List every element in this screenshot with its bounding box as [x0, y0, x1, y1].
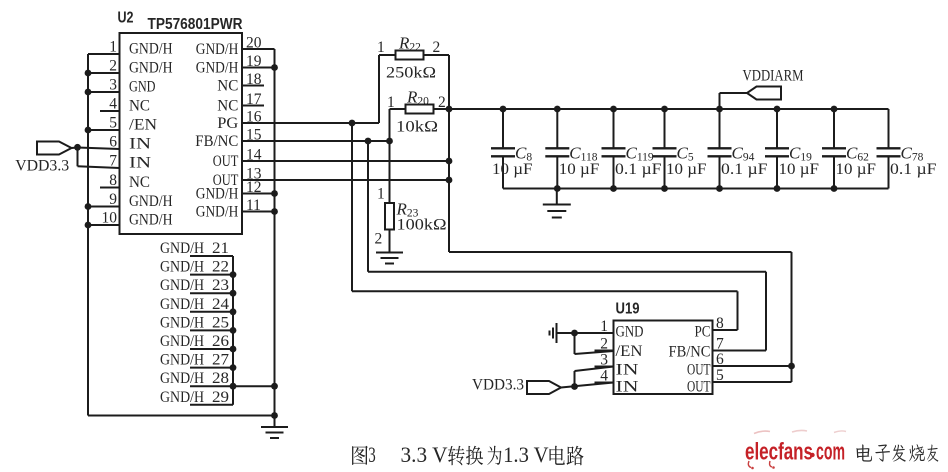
junction dot cap top rail: [500, 106, 507, 113]
svg-text:0.1 µF: 0.1 µF: [615, 161, 662, 178]
svg-text:OUT: OUT: [213, 153, 239, 170]
svg-text:10: 10: [102, 210, 118, 227]
wire FB/NC net (U2 pin15): [242, 140, 390, 142]
junction dot U2 pin9: [85, 203, 92, 210]
capacitor C118 (10 uF): [545, 109, 599, 189]
svg-text:IN: IN: [129, 155, 152, 172]
junction dot cap bottom rail: [610, 185, 617, 192]
U2 pin 1 (GND/H) stub and label: [88, 39, 173, 58]
svg-text:/EN: /EN: [129, 117, 157, 134]
junction dot right bus at GND/H 28: [271, 383, 278, 390]
wire VDDIARM to rail: [720, 93, 748, 109]
U2 part number TP576801PWR: [148, 16, 243, 33]
svg-text:21: 21: [212, 240, 229, 257]
svg-text:5: 5: [109, 115, 117, 132]
U2 reference designator: [118, 10, 134, 27]
U2 pin 8 (NC) stub and label: [100, 172, 150, 191]
R23 value 100kΩ: [397, 217, 447, 234]
svg-text:24: 24: [212, 296, 229, 313]
svg-text:U19: U19: [616, 301, 640, 318]
capacitor C62 (10 uF): [822, 109, 876, 189]
junction dot cap bottom rail: [554, 185, 561, 192]
wire R22 pin1 lead: [379, 55, 396, 123]
wire R23 pin1 lead: [389, 141, 391, 203]
R23 pin 1 number: [377, 186, 385, 203]
wire U19 pin2 tie to pin1: [575, 333, 614, 354]
svg-text:OUT: OUT: [687, 362, 711, 379]
svg-text:20: 20: [246, 35, 262, 52]
R22 pin 2 number: [433, 39, 441, 56]
wire U19 pin5 stub: [713, 366, 792, 382]
svg-text:TP576801PWR: TP576801PWR: [148, 16, 243, 33]
svg-text:8: 8: [109, 172, 117, 189]
U2 pin 15 (FB/NC) stub and label: [195, 127, 261, 151]
ground (capacitor bank): [543, 189, 571, 218]
svg-text:NC: NC: [217, 78, 238, 95]
junction dot U2 pin10: [85, 222, 92, 229]
wire U19 pin1 to ground: [557, 332, 614, 334]
junction dot bottom rail at right bus: [271, 412, 278, 419]
svg-text:IN: IN: [129, 136, 152, 153]
svg-text:28: 28: [212, 370, 229, 387]
power connector VDD3.3 (top): [37, 142, 72, 155]
U2 pin 26 (GND/H) row: [160, 333, 233, 368]
svg-text:1: 1: [377, 39, 385, 56]
label VDD3.3 (U19): [472, 377, 524, 394]
U2 pin 7 (IN) stub and label: [78, 153, 152, 172]
wire OUT bus down and across to U19: [449, 109, 792, 366]
wire R20 pin1 lead: [390, 109, 406, 141]
junction dot cap bottom rail: [831, 185, 838, 192]
junction dot U2 pin2: [85, 70, 92, 77]
junction dot GND/H 26 chain: [230, 346, 237, 353]
junction dot U2 pin3: [85, 89, 92, 96]
wire PG drop to U19 PC: [352, 123, 738, 330]
svg-text:GND/H: GND/H: [129, 193, 173, 210]
svg-text:0.1 µF: 0.1 µF: [890, 161, 937, 178]
wire VDD3.3 down to pin7 row: [77, 147, 79, 166]
logo red flourish: [748, 430, 846, 469]
U19 pin 3 (IN) stub and label: [595, 352, 640, 379]
wire R20 pin2 lead: [434, 108, 450, 110]
svg-text:GND/H: GND/H: [196, 186, 239, 203]
junction dot PG at x352: [349, 120, 356, 127]
junction dot GND/H 28 chain: [230, 383, 237, 390]
junction dot GND/H 24 chain: [230, 308, 237, 315]
U2 pin 4 (NC) stub and label: [100, 96, 150, 115]
svg-text:R22: R22: [398, 34, 421, 54]
svg-text:10 µF: 10 µF: [492, 161, 533, 178]
R20 pin 2 number: [438, 94, 446, 111]
wire capacitor bottom rail: [503, 188, 889, 190]
R22 pin 1 number: [377, 39, 385, 56]
wire U19 pin6 stub: [713, 365, 792, 367]
wire U19 pin3 tie: [575, 367, 614, 387]
svg-text:2: 2: [600, 336, 608, 353]
junction dot U19 pin1 node: [571, 330, 578, 337]
power connector VDDIARM: [747, 87, 781, 100]
junction dot cap top rail: [554, 106, 561, 113]
R20 pin 1 number: [387, 94, 395, 111]
svg-text:IN: IN: [616, 362, 640, 379]
U2 pin 21 (GND/H) row: [160, 240, 233, 275]
svg-text:1: 1: [377, 186, 385, 203]
U19 reference designator: [616, 301, 640, 318]
svg-text:com: com: [816, 439, 845, 466]
svg-text:0.1 µF: 0.1 µF: [721, 161, 768, 178]
junction dot cap top rail: [610, 106, 617, 113]
svg-text:100kΩ: 100kΩ: [397, 217, 447, 234]
svg-text:12: 12: [246, 179, 262, 196]
svg-text:GND/H: GND/H: [129, 41, 173, 58]
svg-text:22: 22: [212, 259, 229, 276]
ground (U19 pin1, rotated): [550, 323, 557, 343]
U2 pin 23 (GND/H) row: [160, 277, 233, 312]
wire U19 pin7 stub: [713, 350, 767, 352]
wire VDD3.3 to U19 pin4: [561, 383, 614, 388]
caption 图3 3.3 V转换为1.3 V电路: [352, 442, 584, 467]
label VDD3.3 (top): [15, 158, 69, 175]
U2 pin 6 (IN) stub and label: [78, 134, 152, 153]
R23 designator: [396, 200, 419, 220]
U2 pin 18 (NC) stub and label: [217, 71, 264, 95]
svg-text:11: 11: [246, 197, 261, 214]
wire FB/NC drop to U19 FB/NC: [368, 141, 766, 351]
svg-text:2: 2: [109, 58, 117, 75]
svg-text:PC: PC: [695, 324, 711, 341]
resistor R23 body: [385, 203, 394, 230]
svg-text:4: 4: [109, 96, 117, 113]
svg-text:7: 7: [109, 153, 117, 170]
svg-text:OUT: OUT: [687, 379, 711, 396]
svg-text:250kΩ: 250kΩ: [386, 65, 436, 82]
svg-text:GND/H: GND/H: [160, 314, 204, 331]
svg-text:GND: GND: [616, 324, 644, 341]
svg-text:VDDIARM: VDDIARM: [743, 68, 804, 85]
wire GND/H 28 row to right bus: [233, 385, 275, 387]
junction dot cap top rail: [831, 106, 838, 113]
U19 pin 4 (IN) stub and label: [595, 368, 640, 396]
svg-text:19: 19: [246, 53, 262, 70]
capacitor C94 (0.1 uF): [708, 109, 768, 189]
U2 pin 22 (GND/H) row: [160, 259, 233, 294]
svg-text:GND/H: GND/H: [160, 389, 204, 406]
junction dot OUT lower at x449: [446, 177, 453, 184]
svg-text:FB/NC: FB/NC: [195, 133, 238, 150]
svg-text:GND/H: GND/H: [160, 333, 204, 350]
U2 pin 5 (/EN) stub and label: [88, 115, 157, 134]
svg-text:GND: GND: [129, 79, 156, 96]
svg-text:GND/H: GND/H: [160, 259, 204, 276]
junction dot U19 pin6 node: [788, 363, 795, 370]
U19 pin 5 (OUT) number and label: [687, 367, 724, 396]
svg-text:NC: NC: [129, 174, 150, 191]
R20 designator: [406, 88, 429, 108]
svg-text:3: 3: [109, 77, 117, 94]
svg-text:17: 17: [246, 91, 262, 108]
svg-text:GND/H: GND/H: [160, 277, 204, 294]
svg-text:26: 26: [212, 333, 229, 350]
junction dot VDD3.3 node: [74, 144, 81, 151]
U2 pin 3 (GND) stub and label: [88, 77, 156, 96]
wire OUT net lower (U2 pin13): [242, 179, 449, 181]
U19 pin 6 (OUT) number and label: [687, 351, 724, 379]
junction dot U2 pin12: [271, 190, 278, 197]
capacitor C119 (0.1 uF): [602, 109, 662, 189]
svg-text:NC: NC: [129, 98, 150, 115]
junction dot R20 pin2 node: [446, 106, 453, 113]
svg-text:1.3 V: 1.3 V: [503, 442, 548, 467]
label VDDIARM: [743, 68, 804, 85]
svg-text:PG: PG: [217, 115, 238, 132]
ground (below R23): [376, 253, 403, 264]
svg-text:elecfans: elecfans: [745, 439, 813, 466]
wire R23 pin2 lead: [389, 230, 391, 253]
capacitor C5 (10 uF): [653, 109, 707, 189]
U2 pin 25 (GND/H) row: [160, 314, 233, 349]
wire VDD3.3 to U2 pin6: [72, 147, 78, 150]
svg-text:2: 2: [433, 39, 441, 56]
svg-text:GND/H: GND/H: [160, 352, 204, 369]
svg-text:FB/NC: FB/NC: [669, 344, 711, 361]
svg-text:1: 1: [109, 39, 117, 56]
wire capacitor top rail: [449, 108, 889, 110]
svg-text:27: 27: [212, 352, 229, 369]
junction dot FB/NC at x368: [365, 138, 372, 145]
svg-text:10 µF: 10 µF: [836, 161, 877, 178]
svg-text:U2: U2: [118, 10, 134, 27]
wire R22 pin2 lead: [424, 55, 450, 109]
junction dot U2 pin19: [271, 64, 278, 71]
junction dot cap bottom rail: [774, 185, 781, 192]
svg-text:GND/H: GND/H: [160, 370, 204, 387]
ground (bottom, below right bus): [261, 416, 288, 439]
svg-text:VDD3.3: VDD3.3: [472, 377, 524, 394]
resistor R20 body: [406, 105, 434, 114]
U2 pin 16 (PG) stub and label: [217, 109, 261, 133]
svg-text:GND/H: GND/H: [196, 204, 239, 221]
logo elecfans.com: [745, 439, 845, 466]
U2 pin 13 (OUT) stub and label: [213, 166, 262, 190]
svg-text:GND/H: GND/H: [129, 212, 173, 229]
capacitor C19 (10 uF): [765, 109, 819, 189]
junction dot cap bottom rail: [716, 185, 723, 192]
junction dot U2 pin11: [271, 208, 278, 215]
U2 pin 9 (GND/H) stub and label: [88, 191, 173, 210]
svg-text:25: 25: [212, 314, 229, 331]
wire U19 pin8 stub: [713, 329, 738, 331]
junction dot FB/NC at R23 top: [386, 138, 393, 145]
svg-text:GND/H: GND/H: [196, 41, 239, 58]
junction dot cap top rail: [716, 106, 723, 113]
svg-text:10 µF: 10 µF: [666, 161, 707, 178]
capacitor C78 (0.1 uF): [877, 109, 937, 189]
svg-text:18: 18: [246, 71, 262, 88]
R22 designator: [398, 34, 421, 54]
svg-text:10 µF: 10 µF: [559, 161, 600, 178]
R22 value 250kΩ: [386, 65, 436, 82]
svg-text:GND/H: GND/H: [196, 60, 239, 77]
junction dot OUT upper at x449: [446, 158, 453, 165]
power connector VDD3.3 (U19): [527, 381, 561, 394]
U2 pin 11 (GND/H) stub and label: [196, 197, 275, 221]
svg-text:3: 3: [368, 442, 376, 467]
wire PG net (U2 pin16): [242, 122, 379, 124]
svg-text:29: 29: [212, 389, 229, 406]
R23 pin 2 number: [375, 231, 383, 248]
wire OUT net upper (U2 pin14): [242, 160, 449, 162]
logo 电子发烧友: [856, 444, 938, 461]
svg-text:VDD3.3: VDD3.3: [15, 158, 69, 175]
svg-text:23: 23: [212, 277, 229, 294]
junction dot U2 pin5: [85, 127, 92, 134]
svg-text:3.3 V: 3.3 V: [401, 442, 448, 467]
U2 pin 27 (GND/H) row: [160, 352, 233, 387]
U2 pin 17 (NC) stub and label: [217, 91, 264, 115]
U2 pin 28 (GND/H) row: [160, 370, 233, 405]
IC U19 body: [614, 321, 713, 395]
svg-text:IN: IN: [616, 379, 640, 396]
junction dot cap bottom rail: [661, 185, 668, 192]
IC U2 body: [120, 33, 243, 234]
wire left GND bus of U2: [87, 54, 89, 416]
svg-text:10 µF: 10 µF: [779, 161, 820, 178]
junction dot cap top rail: [774, 106, 781, 113]
U19 pin 2 (/EN) stub and label: [595, 336, 643, 361]
U19 pin 7 (FB/NC) number and label: [669, 336, 725, 361]
svg-text:/EN: /EN: [616, 343, 643, 360]
U19 pin 1 (GND) stub and label: [595, 318, 644, 341]
junction dot GND/H 25 chain: [230, 327, 237, 334]
junction dot cap top rail: [661, 106, 668, 113]
U2 pin 2 (GND/H) stub and label: [88, 58, 173, 77]
U2 pin 19 (GND/H) stub and label: [196, 53, 275, 77]
svg-text:3: 3: [600, 352, 608, 369]
U2 pin 10 (GND/H) stub and label: [88, 210, 173, 229]
junction dot U19 pin4 node: [571, 383, 578, 390]
wire bottom rail: [88, 415, 275, 417]
junction dot GND/H 23 chain: [230, 290, 237, 297]
junction dot GND/H 27 chain: [230, 364, 237, 371]
U2 pin 24 (GND/H) row: [160, 296, 233, 331]
U2 pin 14 (OUT) stub and label: [213, 147, 262, 171]
svg-text:NC: NC: [217, 98, 238, 115]
svg-text:2: 2: [375, 231, 383, 248]
wire right GND bus of U2: [274, 49, 276, 416]
svg-text:9: 9: [109, 191, 117, 208]
svg-text:GND/H: GND/H: [160, 240, 204, 257]
capacitor C8 (10 uF): [491, 109, 533, 189]
resistor R22 body: [396, 51, 424, 60]
R20 value 10kΩ: [396, 119, 438, 136]
U19 pin 8 (PC) number and label: [695, 315, 725, 341]
svg-text:10kΩ: 10kΩ: [396, 119, 438, 136]
svg-text:R20: R20: [406, 88, 429, 108]
svg-text:6: 6: [109, 134, 117, 151]
svg-text:GND/H: GND/H: [160, 296, 204, 313]
U2 pin 12 (GND/H) stub and label: [196, 179, 275, 203]
U2 pin 29 (GND/H) row: [160, 389, 233, 406]
junction dot GND/H 22 chain: [230, 271, 237, 278]
svg-text:4: 4: [600, 368, 608, 385]
U2 pin 20 (GND/H) stub and label: [196, 35, 275, 59]
svg-text:GND/H: GND/H: [129, 60, 173, 77]
